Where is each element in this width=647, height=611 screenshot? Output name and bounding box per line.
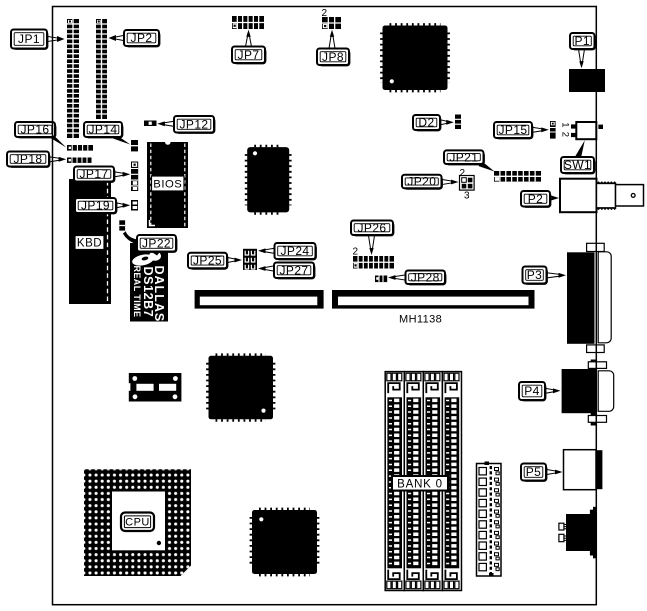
label JP12: [174, 116, 215, 134]
label P3: [523, 267, 548, 285]
leader JP25: [227, 257, 235, 262]
label JP20: [402, 175, 443, 190]
svg-text:2: 2: [560, 132, 571, 137]
label JP7: [232, 47, 266, 65]
leader SW1: [575, 140, 585, 158]
label P1: [570, 33, 596, 50]
header JP12: [144, 121, 157, 127]
slot 2 (MH1138): [332, 290, 535, 309]
svg-text:BANK 0: BANK 0: [397, 479, 443, 491]
header JP17: [131, 162, 138, 192]
connector P4 (DB9): [562, 360, 614, 426]
CPU text box: [121, 513, 154, 532]
svg-text:KBD: KBD: [77, 238, 102, 250]
svg-text:BIOS: BIOS: [153, 179, 182, 191]
svg-text:DS12B7: DS12B7: [141, 267, 155, 318]
leader JP8: [329, 36, 335, 49]
vertical connector right of SIMM bank: [477, 464, 502, 577]
leader P2: [550, 195, 552, 200]
leader JP27: [265, 266, 274, 271]
jumper block JP20: [460, 176, 475, 191]
KBD text box: [75, 236, 104, 250]
label P2: [521, 191, 551, 208]
header JP26: [353, 256, 394, 269]
SIMM sockets BANK 0: [385, 372, 461, 591]
leader P3: [547, 273, 560, 278]
svg-text:JP28: JP28: [411, 270, 440, 284]
label JP2: [124, 30, 160, 47]
svg-text:MH1138: MH1138: [399, 314, 442, 326]
leader JP12: [164, 121, 174, 126]
label P4: [519, 382, 546, 401]
leader JP17: [114, 172, 123, 177]
svg-text:SW1: SW1: [564, 158, 591, 172]
svg-text:JP24: JP24: [281, 244, 310, 258]
DALLAS DS12B7 real-time clock chip: [130, 243, 168, 322]
jumper block JP24/JP25/JP27: [243, 249, 257, 270]
connector P5: [564, 450, 603, 490]
label JP21: [444, 150, 485, 165]
label JP27: [274, 263, 315, 280]
label JP19: [75, 198, 117, 214]
label JP16: [15, 122, 56, 138]
svg-text:P4: P4: [524, 384, 539, 398]
label JP15: [494, 122, 533, 139]
svg-text:JP26: JP26: [358, 221, 387, 235]
BIOS chip: [147, 142, 188, 228]
leader JP28: [395, 275, 406, 280]
connector P3 (DB25): [567, 243, 611, 352]
leader P5: [546, 469, 556, 474]
leader JP1: [47, 36, 58, 41]
chip U-left (QFP): [207, 355, 274, 421]
svg-text:JP21: JP21: [449, 150, 478, 164]
header JP21: [494, 171, 541, 182]
label JP8: [317, 49, 350, 67]
keyboard connector KBD: [69, 179, 111, 304]
diode D2 target: [455, 115, 461, 130]
jumper JP14 (2-pin): [131, 140, 138, 151]
label JP28: [406, 270, 447, 285]
label JP14: [84, 122, 123, 138]
chip U-bottom (QFP): [251, 509, 318, 575]
leader JP24: [265, 248, 275, 253]
svg-text:JP15: JP15: [499, 123, 528, 137]
label JP25: [188, 253, 228, 270]
header JP28: [375, 276, 387, 283]
slot 1: [195, 290, 324, 309]
label JP1: [11, 30, 48, 50]
header JP8: [322, 17, 341, 29]
bottom-right DIN connector: [559, 507, 597, 559]
leader JP20: [442, 179, 452, 184]
connector P2 (BNC): [560, 179, 644, 213]
label JP17: [74, 167, 115, 183]
oscillator Y1: [128, 373, 182, 402]
svg-text:JP25: JP25: [193, 254, 222, 268]
header JP15: [550, 121, 556, 139]
leader JP22: [123, 231, 138, 244]
svg-text:P2: P2: [528, 192, 543, 206]
BIOS text box: [152, 176, 185, 191]
chip U-mid (PLCC): [246, 146, 290, 214]
chip U-top (large QFP): [381, 24, 448, 91]
svg-text:D2: D2: [418, 116, 434, 130]
leader JP16: [48, 133, 66, 148]
leader JP14: [113, 134, 130, 144]
connector P1 (power, edge): [569, 69, 605, 92]
label JP24: [275, 243, 317, 260]
svg-text:JP7: JP7: [238, 48, 260, 62]
header JP7: [232, 16, 264, 29]
leader JP7: [245, 36, 251, 47]
svg-text:JP27: JP27: [280, 263, 309, 277]
svg-text:JP8: JP8: [322, 50, 344, 64]
svg-text:3: 3: [464, 191, 470, 202]
label D2: [413, 115, 441, 131]
svg-text:CPU: CPU: [125, 517, 150, 529]
svg-text:JP2: JP2: [131, 31, 153, 45]
leader D2: [440, 120, 447, 125]
svg-text:JP18: JP18: [14, 152, 43, 166]
svg-text:JP14: JP14: [89, 123, 118, 137]
leader JP15: [532, 127, 542, 132]
label JP22: [137, 235, 177, 253]
leader JP26: [368, 235, 374, 249]
leader P1: [578, 49, 584, 62]
svg-text:JP12: JP12: [180, 117, 209, 131]
svg-text:JP16: JP16: [21, 123, 50, 137]
svg-text:P1: P1: [574, 34, 589, 48]
label SW1: [561, 157, 595, 174]
BANK 0 text box: [392, 476, 448, 491]
jumper JP19 (2-pin): [131, 200, 138, 211]
leader JP18: [49, 157, 59, 162]
leader JP2: [116, 35, 125, 40]
leader JP21: [479, 161, 495, 172]
svg-text:1: 1: [560, 122, 571, 127]
svg-text:P3: P3: [527, 268, 542, 282]
svg-text:P5: P5: [526, 465, 541, 479]
svg-text:JP17: JP17: [80, 167, 109, 181]
jumper JP22 target (2-pin): [119, 220, 125, 230]
leader JP19: [116, 203, 123, 208]
label JP26: [351, 221, 394, 237]
leader P4: [545, 388, 554, 393]
svg-text:JP19: JP19: [81, 199, 110, 213]
svg-text:JP22: JP22: [142, 236, 171, 250]
header JP18: [67, 158, 92, 163]
svg-text:JP20: JP20: [407, 175, 436, 189]
connector JP1 (vertical 2-col header): [67, 19, 79, 138]
switch SW1: [571, 122, 603, 139]
label P5: [521, 464, 547, 482]
label JP18: [7, 152, 50, 168]
connector JP2 (vertical 2-col header): [96, 19, 107, 119]
header JP16: [67, 145, 93, 151]
svg-text:2: 2: [460, 168, 466, 179]
svg-text:JP1: JP1: [18, 32, 40, 46]
svg-text:2: 2: [353, 247, 359, 258]
svg-text:REAL TIME: REAL TIME: [132, 266, 142, 318]
